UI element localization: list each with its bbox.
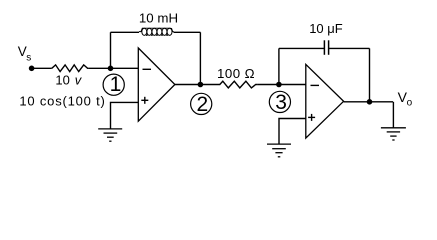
node 2 circle label bbox=[191, 93, 212, 116]
svg-text:2: 2 bbox=[197, 93, 209, 116]
wire: feedback down to op-amp U2 output bbox=[369, 48, 371, 101]
resistor R1 (10 v) zigzag bbox=[52, 65, 89, 72]
svg-text:10: 10 bbox=[55, 73, 69, 88]
wire: capacitor feedback right segment bbox=[329, 47, 370, 49]
op-amp U1 inverting pin mark (-) bbox=[143, 68, 152, 70]
wire: node 3 up to capacitor feedback bbox=[278, 48, 280, 84]
op-amp U1 non-inverting pin mark (+) bbox=[141, 97, 148, 104]
svg-text:100 Ω: 100 Ω bbox=[217, 66, 255, 81]
junction dot node 2 bbox=[198, 82, 204, 88]
resistor R2 (100 ohm) zigzag bbox=[219, 81, 258, 88]
value label 10 v bbox=[55, 73, 82, 88]
svg-text:10 μF: 10 μF bbox=[309, 21, 343, 36]
op-amp U2 non-inverting pin mark (+) bbox=[308, 114, 315, 121]
wire: op-amp U1 + input to ground corner bbox=[111, 102, 139, 128]
source terminal dot bbox=[29, 66, 35, 72]
junction dot node 1 bbox=[108, 66, 114, 72]
ground symbol G2 bbox=[267, 144, 291, 157]
svg-text:10 mH: 10 mH bbox=[139, 11, 178, 26]
wire: feedback down to node 2 bbox=[199, 32, 201, 84]
svg-text:1: 1 bbox=[110, 73, 122, 96]
label Vo (output) bbox=[398, 89, 413, 109]
junction dot node 3 bbox=[276, 82, 282, 88]
wire: op-amp U1 output to node 3 (through node 2 and R2) bbox=[175, 84, 219, 86]
op-amp U2 triangle bbox=[306, 64, 344, 138]
node 1 circle label bbox=[103, 73, 124, 96]
wire: op-amp U2 + input to ground corner bbox=[279, 119, 306, 145]
wire: source to resistor R1 bbox=[32, 67, 52, 69]
capacitor C1 (10 uF) plates bbox=[324, 40, 328, 55]
svg-text:v: v bbox=[75, 73, 83, 88]
op-amp U2 inverting pin mark (-) bbox=[311, 84, 320, 86]
svg-text:s: s bbox=[26, 52, 31, 63]
label Vs (source name) bbox=[18, 44, 32, 63]
wire: feedback top right segment bbox=[174, 31, 201, 33]
op-amp U1 triangle bbox=[138, 48, 175, 121]
wire: feedback top left segment bbox=[111, 31, 140, 33]
ground symbol G3 bbox=[381, 128, 406, 140]
svg-text:10 cos(100 t): 10 cos(100 t) bbox=[19, 93, 105, 108]
ground symbol G1 bbox=[98, 129, 122, 141]
inductor L1 (10 mH) bbox=[139, 28, 174, 36]
wire: resistor R1 to op-amp U1 inverting input (through node 1) bbox=[88, 67, 138, 69]
wire: op-amp U2 output to Vo corner bbox=[344, 101, 393, 103]
wire: capacitor feedback left segment bbox=[279, 47, 325, 49]
wire: R2 to op-amp U2 inverting input bbox=[257, 84, 305, 86]
svg-text:3: 3 bbox=[275, 91, 287, 114]
wire: node 1 up to feedback (inductor) bbox=[110, 32, 112, 68]
wire: output corner down to ground bbox=[392, 102, 394, 128]
node 3 circle label bbox=[269, 91, 290, 114]
junction dot at output feedback bbox=[367, 99, 373, 105]
svg-text:o: o bbox=[407, 98, 413, 109]
